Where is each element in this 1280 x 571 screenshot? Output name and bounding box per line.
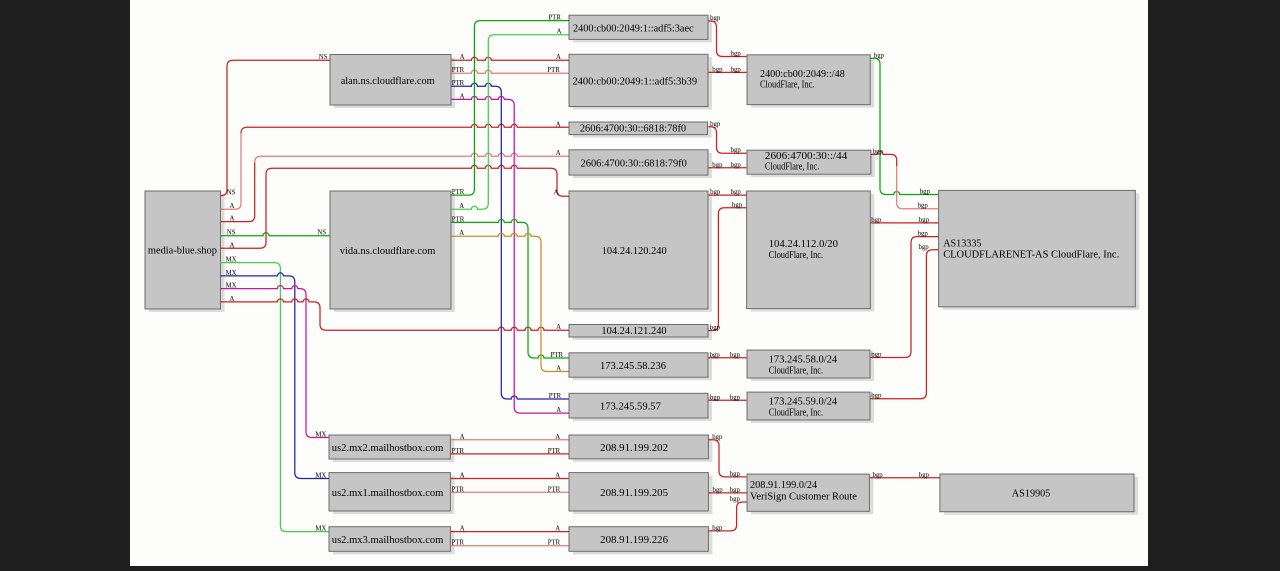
svg-text:bgp: bgp — [712, 525, 723, 532]
svg-text:208.91.199.205: 208.91.199.205 — [600, 487, 668, 499]
svg-text:A: A — [557, 29, 562, 36]
svg-text:bgp: bgp — [710, 189, 721, 196]
svg-text:us2.mx2.mailhostbox.com: us2.mx2.mailhostbox.com — [332, 442, 444, 454]
svg-text:MX: MX — [226, 270, 237, 277]
svg-text:CloudFlare, Inc.: CloudFlare, Inc. — [769, 407, 824, 419]
svg-text:PTR: PTR — [452, 67, 465, 74]
svg-text:MX: MX — [315, 473, 326, 480]
svg-text:A: A — [554, 189, 559, 196]
svg-text:A: A — [556, 150, 561, 157]
svg-text:bgp: bgp — [873, 148, 884, 155]
svg-text:bgp: bgp — [918, 203, 929, 210]
svg-text:PTR: PTR — [548, 448, 561, 455]
svg-text:us2.mx3.mailhostbox.com: us2.mx3.mailhostbox.com — [332, 534, 444, 546]
svg-text:A: A — [556, 54, 561, 61]
svg-text:PTR: PTR — [452, 189, 465, 196]
svg-text:CLOUDFLARENET-AS CloudFlare, I: CLOUDFLARENET-AS CloudFlare, Inc. — [943, 249, 1119, 261]
svg-text:bgp: bgp — [919, 244, 930, 251]
svg-text:A: A — [230, 203, 235, 210]
svg-text:A: A — [230, 216, 235, 223]
svg-text:PTR: PTR — [452, 80, 465, 87]
svg-text:MX: MX — [315, 526, 326, 533]
svg-text:PTR: PTR — [548, 486, 561, 493]
svg-text:media-blue.shop: media-blue.shop — [148, 245, 217, 257]
svg-text:PTR: PTR — [551, 352, 564, 359]
svg-text:PTR: PTR — [452, 540, 465, 547]
svg-text:A: A — [556, 324, 561, 331]
svg-text:173.245.58.236: 173.245.58.236 — [600, 360, 666, 372]
svg-text:173.245.59.57: 173.245.59.57 — [600, 401, 661, 413]
svg-text:bgp: bgp — [918, 231, 929, 238]
svg-text:A: A — [556, 407, 561, 414]
svg-text:bgp: bgp — [871, 352, 882, 359]
svg-text:A: A — [459, 230, 464, 237]
svg-text:vida.ns.cloudflare.com: vida.ns.cloudflare.com — [340, 245, 436, 257]
svg-text:2400:cb00:2049:1::adf5:3aec: 2400:cb00:2049:1::adf5:3aec — [573, 22, 694, 34]
svg-text:bgp: bgp — [730, 471, 741, 478]
svg-text:bgp: bgp — [713, 487, 724, 494]
svg-text:VeriSign Customer Route: VeriSign Customer Route — [750, 491, 857, 503]
svg-text:PTR: PTR — [452, 486, 465, 493]
svg-text:NS: NS — [227, 230, 236, 237]
svg-text:A: A — [556, 121, 561, 128]
svg-text:bgp: bgp — [731, 51, 742, 58]
svg-text:CloudFlare, Inc.: CloudFlare, Inc. — [760, 78, 815, 90]
svg-text:bgp: bgp — [871, 217, 882, 224]
svg-text:MX: MX — [226, 257, 237, 264]
svg-text:A: A — [459, 203, 464, 210]
svg-text:A: A — [460, 434, 465, 441]
svg-text:us2.mx1.mailhostbox.com: us2.mx1.mailhostbox.com — [332, 487, 444, 499]
svg-text:2400:cb00:2049:1::adf5:3b39: 2400:cb00:2049:1::adf5:3b39 — [572, 75, 697, 87]
svg-text:AS19905: AS19905 — [1012, 488, 1051, 500]
svg-text:A: A — [230, 242, 235, 249]
svg-text:bgp: bgp — [871, 393, 882, 400]
svg-text:PTR: PTR — [452, 216, 465, 223]
svg-text:A: A — [460, 473, 465, 480]
svg-text:208.91.199.0/24: 208.91.199.0/24 — [750, 479, 818, 491]
svg-text:A: A — [555, 526, 560, 533]
svg-text:bgp: bgp — [731, 162, 742, 169]
svg-text:104.24.120.240: 104.24.120.240 — [602, 245, 667, 257]
svg-text:A: A — [460, 54, 465, 61]
svg-text:NS: NS — [319, 54, 328, 61]
svg-text:bgp: bgp — [874, 52, 885, 59]
svg-text:PTR: PTR — [452, 448, 465, 455]
svg-text:bgp: bgp — [730, 487, 741, 494]
svg-text:bgp: bgp — [730, 394, 741, 401]
svg-text:bgp: bgp — [712, 162, 723, 169]
svg-text:bgp: bgp — [712, 434, 723, 441]
svg-text:A: A — [555, 473, 560, 480]
svg-text:bgp: bgp — [732, 202, 743, 209]
svg-text:CloudFlare, Inc.: CloudFlare, Inc. — [765, 161, 820, 173]
svg-text:bgp: bgp — [920, 189, 931, 196]
svg-text:2606:4700:30::6818:79f0: 2606:4700:30::6818:79f0 — [581, 157, 688, 169]
svg-text:A: A — [230, 296, 235, 303]
svg-text:MX: MX — [315, 432, 326, 439]
svg-text:bgp: bgp — [730, 352, 741, 359]
svg-text:NS: NS — [227, 190, 236, 197]
svg-text:A: A — [460, 526, 465, 533]
svg-text:bgp: bgp — [919, 472, 930, 479]
svg-text:bgp: bgp — [731, 66, 742, 73]
svg-text:bgp: bgp — [710, 121, 721, 128]
svg-text:bgp: bgp — [710, 15, 721, 22]
svg-text:bgp: bgp — [731, 147, 742, 154]
svg-text:A: A — [556, 366, 561, 373]
svg-text:208.91.199.202: 208.91.199.202 — [600, 442, 668, 454]
svg-text:PTR: PTR — [548, 15, 561, 22]
svg-text:alan.ns.cloudflare.com: alan.ns.cloudflare.com — [341, 75, 435, 87]
svg-text:NS: NS — [318, 230, 327, 237]
svg-text:bgp: bgp — [710, 325, 721, 332]
svg-text:2606:4700:30::6818:78f0: 2606:4700:30::6818:78f0 — [580, 123, 687, 135]
svg-text:PTR: PTR — [549, 393, 562, 400]
svg-text:bgp: bgp — [873, 472, 884, 479]
svg-text:bgp: bgp — [730, 496, 741, 503]
svg-text:PTR: PTR — [548, 540, 561, 547]
svg-text:A: A — [460, 93, 465, 100]
svg-text:PTR: PTR — [547, 67, 560, 74]
svg-text:MX: MX — [226, 283, 237, 290]
svg-text:104.24.121.240: 104.24.121.240 — [601, 325, 667, 337]
svg-text:bgp: bgp — [919, 217, 930, 224]
svg-text:bgp: bgp — [710, 352, 721, 359]
svg-text:bgp: bgp — [710, 394, 721, 401]
svg-text:208.91.199.226: 208.91.199.226 — [600, 534, 668, 546]
svg-text:A: A — [555, 434, 560, 441]
svg-text:CloudFlare, Inc.: CloudFlare, Inc. — [769, 365, 824, 377]
svg-text:CloudFlare, Inc.: CloudFlare, Inc. — [769, 249, 824, 261]
svg-text:bgp: bgp — [731, 189, 742, 196]
svg-text:bgp: bgp — [712, 66, 723, 73]
